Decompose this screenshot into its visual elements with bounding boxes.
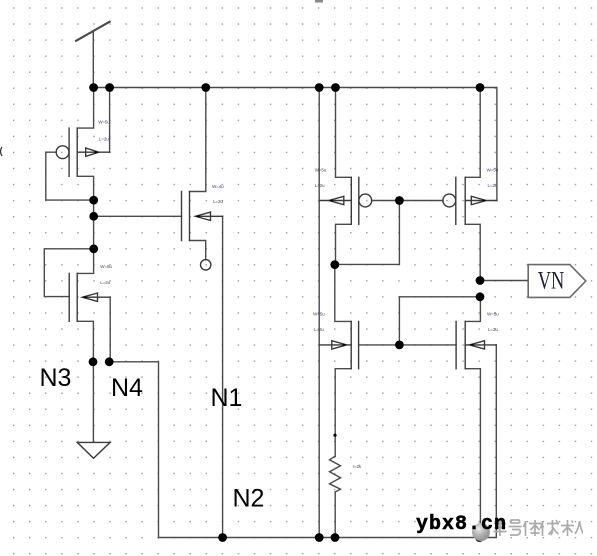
junction M4 source node	[330, 260, 339, 269]
junction node N3	[89, 357, 98, 366]
wire M6 source to resistor	[335, 369, 351, 457]
svg-text:N2: N2	[233, 485, 265, 513]
wire to VN port	[480, 280, 528, 282]
junction rail 2	[105, 83, 114, 92]
wire M2 source to ground node	[77, 321, 93, 442]
resistor pin mark	[333, 434, 336, 437]
nmos M7	[456, 321, 496, 368]
wire M1 bulk to rail	[109, 88, 111, 153]
wire resistor to bottom rail	[334, 492, 336, 537]
svg-text:N1: N1	[211, 384, 243, 412]
junction M1 gate-source	[89, 196, 98, 205]
svg-text:r=2k: r=2k	[353, 464, 362, 469]
svg-text:VN: VN	[538, 266, 565, 295]
nmos M6	[319, 321, 358, 368]
wire M5 source to VN node	[465, 224, 480, 280]
svg-text:N3: N3	[40, 364, 72, 392]
svg-text:W=5u: W=5u	[487, 168, 499, 173]
wire M1 drain to rail	[77, 88, 93, 129]
junction rail 1	[89, 83, 98, 92]
junction rail 3	[201, 83, 210, 92]
wire node to M6 drain	[335, 265, 351, 322]
junction M2 gate-drain	[89, 244, 98, 253]
junction rail 4	[315, 83, 324, 92]
wire left bulk column	[318, 88, 320, 538]
wire M7 source to bottom rail	[465, 369, 480, 538]
ground	[77, 442, 110, 458]
svg-text:W=5u: W=5u	[487, 312, 499, 317]
wire node N4 to M3 gate	[94, 215, 182, 217]
wire M2 gate diode connection	[44, 249, 93, 297]
junction bulk bottom	[315, 533, 324, 542]
wire PMOS gate link	[372, 200, 443, 202]
resistor R1	[330, 456, 341, 492]
wire NMOS gate link	[359, 344, 457, 346]
wire M1 gate diode connection	[46, 152, 94, 200]
svg-text:W=4u: W=4u	[212, 184, 224, 189]
junction resistor bottom	[331, 533, 340, 542]
svg-text:N4: N4	[111, 374, 143, 402]
port VN flag	[528, 265, 586, 298]
junction NMOS gates	[395, 341, 404, 350]
wire VDD rail	[94, 88, 497, 201]
svg-text:W=5u: W=5u	[313, 312, 325, 317]
value labels	[98, 120, 499, 470]
clipped mark top edge	[315, 0, 323, 3]
watermark logo circle	[472, 523, 490, 541]
svg-text:L=2u: L=2u	[314, 327, 324, 332]
wire M5 drain to rail	[465, 88, 480, 178]
watermark ybx8.cn	[416, 513, 507, 536]
svg-text:L=2u: L=2u	[213, 199, 223, 204]
junction node N4	[105, 357, 114, 366]
pmos M4	[319, 177, 371, 224]
junction M7 drain node	[476, 292, 485, 301]
svg-text:W=5u: W=5u	[98, 120, 110, 125]
svg-text:L=2u: L=2u	[315, 183, 325, 188]
wire M1 source / node column	[77, 176, 93, 273]
junction N1-N2 bottom	[218, 533, 227, 542]
svg-text:L=2u: L=2u	[488, 183, 498, 188]
svg-text:W=5u: W=5u	[315, 168, 327, 173]
clipped mark left edge	[1, 147, 3, 156]
wire net N1	[222, 216, 224, 537]
wire M4 drain to rail	[336, 88, 352, 178]
pmos M1	[56, 128, 109, 176]
svg-text:L=2u: L=2u	[100, 280, 110, 285]
pmos M5	[443, 177, 497, 224]
svg-text:W=5u: W=5u	[100, 264, 112, 269]
power supply symbol	[76, 22, 110, 88]
junction PMOS gates	[395, 196, 404, 205]
junction rail 6	[476, 83, 485, 92]
node name labels	[40, 364, 265, 513]
wire M2 bulk down	[109, 297, 111, 362]
wire M7 drain up	[465, 297, 480, 322]
wire M4 gate to drain node	[335, 201, 400, 265]
wire M7 drain to NMOS gate link	[399, 297, 480, 345]
nmos M3	[182, 192, 223, 241]
wire bottom ground rail	[159, 345, 497, 538]
wire M3 drain to rail	[190, 88, 206, 192]
junction VN node	[476, 276, 485, 285]
wire M3 source stub	[190, 241, 206, 260]
M3 source open pin	[201, 260, 211, 270]
junction rail 5	[331, 83, 340, 92]
nmos M2	[69, 273, 110, 321]
junction node N4 tap	[89, 212, 98, 221]
svg-text:L=2u: L=2u	[99, 137, 109, 142]
watermark CJK text	[493, 517, 583, 538]
wire M4 source down	[336, 224, 352, 264]
wire node N4 down to bottom rail	[109, 362, 158, 538]
junction M7 source bottom	[475, 533, 484, 542]
svg-text:L=2u: L=2u	[488, 327, 498, 332]
